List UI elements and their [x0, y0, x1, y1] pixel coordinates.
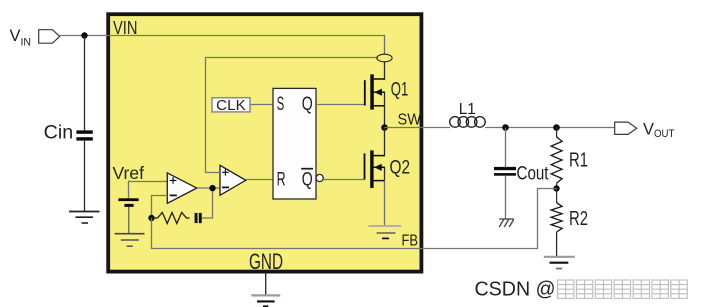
voltage reference (battery): [118, 198, 138, 207]
wire Vref to error amp + input: [129, 181, 168, 183]
node feedback divider: [553, 185, 559, 191]
svg-text:OUT: OUT: [654, 128, 675, 140]
transistor Q2 (low-side MOSFET): [365, 150, 386, 188]
current sense ellipse: [377, 54, 392, 62]
svg-text:Q1: Q1: [391, 79, 409, 100]
wire error amp - input: [152, 196, 168, 219]
ground (Vref): [115, 234, 145, 247]
wire R2 to ground: [556, 232, 558, 257]
svg-text:Cout: Cout: [517, 164, 550, 185]
wire Q2 body rail: [384, 167, 386, 180]
ground (Q2 source): [369, 226, 402, 238]
wire down to Cout: [505, 128, 507, 168]
node FB/compensation junction: [148, 215, 154, 221]
input connector tag VIN: [39, 30, 60, 44]
wire SW out to inductor: [385, 127, 451, 129]
resistor R1: [551, 137, 562, 183]
CLK source box: [212, 97, 250, 114]
wire SW down to Q2 drain: [384, 128, 386, 156]
wire down to Cin: [84, 36, 86, 131]
watermark CSDN: [475, 277, 556, 300]
svg-text:S: S: [277, 94, 285, 115]
wire current-sense to comparator + input: [206, 58, 379, 173]
svg-text:V: V: [643, 121, 654, 139]
SR latch U1: [273, 88, 316, 199]
wire comparator output to latch R: [246, 179, 273, 181]
IC body (yellow box): [108, 14, 421, 271]
wire VIN rail down to sense ellipse: [384, 36, 386, 55]
output connector tag VOUT: [615, 122, 637, 134]
wire Vref down to reference source: [128, 181, 130, 199]
svg-text:CSDN @: CSDN @: [475, 277, 556, 300]
svg-text:CLK: CLK: [216, 97, 246, 114]
wire battery to ground: [128, 207, 130, 234]
svg-text:Q2: Q2: [390, 157, 411, 178]
ground (Cout, hatched): [499, 219, 514, 227]
wire Cin to ground: [84, 141, 86, 212]
resistor R2: [551, 203, 562, 232]
wire Q-bar bubble to Q2 gate: [323, 179, 364, 181]
wire Q2 source to ground: [384, 181, 386, 226]
capacitor compensation: [195, 213, 202, 223]
node error amp output: [209, 185, 215, 191]
node SW: [381, 124, 388, 131]
wire latch Q to Q1 gate: [316, 104, 365, 106]
wire R1 top lead: [556, 127, 558, 138]
wire VIN horizontal: [60, 35, 385, 37]
op-amp error amplifier: [167, 173, 197, 203]
wire Q1 body/source rail to SW: [384, 92, 386, 127]
wire CLK to latch S: [250, 104, 273, 106]
wire FB from divider to IC FB pin: [152, 189, 557, 249]
capacitor Cout: [494, 167, 516, 176]
ground (R2): [544, 257, 575, 269]
wire R1 to FB node: [556, 183, 558, 188]
svg-text:Q: Q: [302, 170, 313, 191]
node R1 tap: [553, 124, 560, 131]
svg-text:Cin: Cin: [44, 123, 73, 144]
svg-text:R2: R2: [569, 208, 588, 230]
svg-text:V: V: [10, 27, 21, 45]
ground (IC GND pin, below box): [251, 273, 280, 306]
svg-text:SW: SW: [398, 111, 422, 128]
op-amp PWM comparator: [220, 165, 246, 195]
svg-text:Q: Q: [302, 94, 313, 115]
svg-text:GND: GND: [249, 249, 283, 274]
ground (Cin): [69, 212, 100, 224]
node Cout tap: [502, 124, 509, 131]
svg-text:FB: FB: [402, 232, 419, 249]
wire compensation to output node: [202, 188, 213, 218]
wire Cout to ground: [505, 176, 507, 219]
wire error amp output: [197, 187, 220, 189]
svg-text:Vref: Vref: [113, 163, 145, 183]
inverting bubble on Q-bar output: [316, 174, 323, 181]
wire R2 top lead: [556, 188, 558, 203]
transistor Q1 (high-side MOSFET): [365, 74, 385, 109]
svg-text:R: R: [277, 170, 286, 191]
inductor L1: [450, 117, 486, 128]
wire ellipse to Q1 drain: [384, 62, 386, 79]
wire inductor to output: [485, 127, 615, 129]
svg-text:R1: R1: [569, 149, 588, 171]
resistor compensation (zigzag): [151, 213, 189, 224]
svg-text:L1: L1: [459, 101, 476, 118]
capacitor Cin: [76, 130, 92, 140]
svg-text:IN: IN: [21, 37, 32, 49]
node junction at Cin tap: [81, 32, 87, 38]
